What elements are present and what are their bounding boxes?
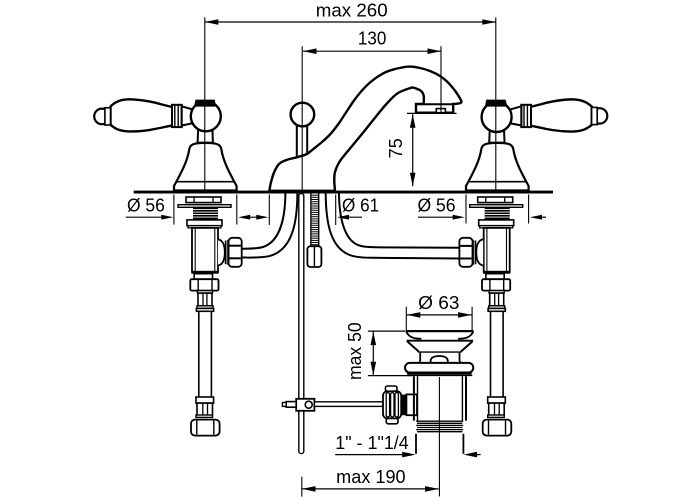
right valve body bottom rim	[483, 272, 510, 274]
drain cylinder	[418, 353, 463, 364]
right handle centerline	[495, 100, 497, 191]
left valve body tube	[192, 228, 218, 272]
drain gasket	[407, 373, 471, 375]
spout mounting threaded stud	[311, 194, 319, 246]
right valve outlet neck	[486, 274, 504, 280]
left handle collar	[172, 105, 182, 127]
dimension max 260	[205, 1, 496, 100]
drain flange corner curls	[406, 332, 421, 339]
right hose end nut	[483, 420, 512, 436]
left handle cap	[194, 100, 216, 107]
right valve washer plate	[470, 205, 523, 208]
drain cone bottom edge	[418, 351, 461, 353]
right hose ferrule band	[489, 306, 505, 309]
left hose bottom collar	[196, 397, 214, 403]
drain ring	[405, 363, 473, 373]
spout centerline / lift rod axis	[301, 46, 303, 191]
knurled pivot nut	[383, 386, 401, 424]
dimension diameter 61	[269, 195, 379, 226]
right handle lever body	[530, 99, 592, 131]
left valve washer plate	[178, 205, 231, 208]
left valve body bottom rim	[191, 272, 218, 274]
svg-text:1" - 1"1/4: 1" - 1"1/4	[335, 433, 409, 453]
dimension diameter 56 right	[417, 195, 546, 224]
left handle taper	[182, 106, 196, 125]
right flexible hose tube	[491, 311, 504, 397]
right hose top ferrule	[490, 293, 504, 306]
right hose bottom collar	[488, 397, 506, 403]
svg-text:75: 75	[386, 138, 406, 158]
dimension 130	[303, 29, 441, 114]
left hose collar	[196, 308, 213, 311]
svg-text:130: 130	[358, 29, 386, 49]
drain flange ledge	[407, 340, 474, 342]
left valve locknut	[187, 220, 222, 228]
left handle centerline	[204, 100, 206, 191]
left handle bell base	[174, 143, 237, 191]
drain body walls	[414, 376, 466, 420]
lift rod	[297, 122, 307, 157]
lift rod ball	[291, 103, 315, 127]
right handle cap	[485, 100, 508, 107]
svg-text:Ø 63: Ø 63	[418, 293, 459, 313]
right hose bottom ferrule	[489, 403, 505, 416]
dimension diameter 56 left	[126, 195, 237, 225]
dimension 75	[386, 113, 457, 186]
pop-up rod adjustment screw	[282, 402, 296, 408]
right handle neck below ball	[489, 128, 504, 143]
horizontal lever rod	[314, 402, 383, 407]
drain flange top	[406, 330, 474, 332]
left hose ferrule band	[197, 306, 213, 309]
right handle knob	[592, 107, 608, 124]
dimension max 190	[302, 467, 439, 497]
left hose union nut	[190, 279, 218, 290]
left handle neck below ball	[198, 128, 213, 143]
drain washer line	[407, 374, 473, 376]
left valve elbow port	[218, 238, 242, 267]
left hose top ferrule	[198, 293, 212, 306]
dimension max 50	[345, 322, 412, 380]
right handle ball	[482, 102, 512, 132]
right handle bell base	[466, 143, 529, 191]
svg-text:max 260: max 260	[316, 1, 388, 21]
left hose crimp collar	[197, 291, 212, 294]
stud mounting nut	[307, 246, 321, 267]
pivot gland	[401, 395, 406, 416]
drain cone	[407, 341, 472, 351]
left hose bottom band	[196, 415, 213, 417]
right hose collar	[488, 308, 505, 311]
pop-up rod clamp block	[296, 399, 314, 411]
drain centerline	[438, 377, 440, 496]
right valve threaded section	[485, 207, 510, 220]
deck / counter line	[134, 191, 553, 194]
left handle lever body	[111, 99, 173, 131]
right valve locknut	[479, 220, 514, 228]
right valve shank hex nut	[478, 197, 513, 203]
dimension 1 inch - 1 inch 1/4	[335, 433, 480, 457]
right hose union nut	[482, 279, 510, 290]
right hose crimp collar	[489, 291, 504, 294]
drain tailpipe	[416, 434, 463, 454]
gap double arrow	[238, 215, 268, 220]
left handle ball	[191, 101, 221, 131]
right supply pipe to spout	[326, 194, 462, 259]
left valve threaded section	[193, 207, 218, 220]
svg-text:Ø 56: Ø 56	[127, 195, 165, 215]
left valve shank hex nut	[186, 197, 221, 203]
left hose end nut	[191, 420, 220, 436]
right handle taper	[507, 106, 521, 125]
spout body with escutcheon and aerator outline	[269, 67, 461, 191]
left valve outlet neck	[194, 274, 212, 280]
dimension diameter 63	[406, 293, 472, 331]
right hose bottom band	[488, 415, 505, 417]
svg-text:Ø 56: Ø 56	[417, 196, 455, 216]
right valve body tube	[484, 228, 510, 272]
left handle knob	[94, 108, 110, 125]
left flexible hose tube	[199, 311, 212, 397]
aerator insert detail	[436, 109, 445, 113]
drain thread section	[416, 421, 463, 432]
left hose bottom ferrule	[197, 403, 213, 416]
svg-text:max 190: max 190	[336, 467, 405, 487]
svg-text:Ø 61: Ø 61	[342, 196, 379, 216]
svg-text:max 50: max 50	[345, 322, 365, 380]
right handle collar	[521, 105, 531, 127]
right valve elbow port	[459, 238, 483, 267]
pop-up lift rod below deck	[299, 194, 304, 454]
aerator top edge	[416, 103, 453, 105]
left supply pipe to spout	[241, 194, 298, 258]
drain plug dome	[431, 356, 448, 363]
drain side port	[406, 394, 417, 415]
